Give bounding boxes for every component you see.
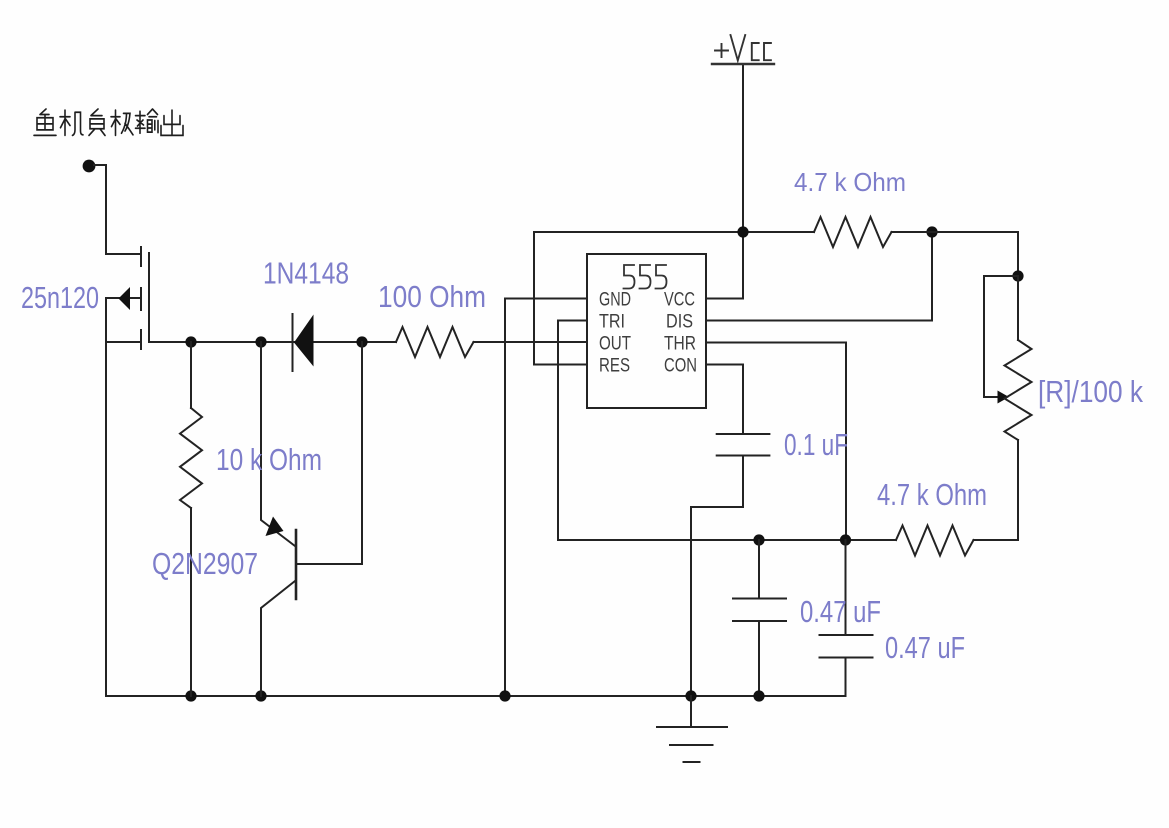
wire: rail to potentiometer top	[932, 232, 1018, 276]
node: C3/THR junction dot	[840, 534, 851, 545]
potentiometer RV1 wiper arrow	[998, 391, 1010, 404]
node: rail dot at ground symbol	[685, 690, 696, 701]
transistor Q1 emitter arrow	[266, 517, 284, 537]
wire: GND pin stub and riser down to ground rail	[505, 299, 587, 697]
char 极	[111, 110, 133, 135]
char 负	[89, 109, 105, 135]
svg-text:10 k Ohm: 10 k Ohm	[216, 442, 322, 477]
capacitor C1 0.1 uF plates	[717, 434, 770, 456]
node B junction dot	[255, 336, 266, 347]
wire: gate to main node A (y=342)	[149, 341, 396, 343]
svg-text:1N4148: 1N4148	[263, 256, 349, 291]
capacitor C3 0.47 uF plates	[820, 635, 873, 658]
node C junction dot	[356, 336, 367, 347]
node: 鱼机负极输出 input terminal	[83, 160, 96, 173]
char 输	[136, 109, 159, 133]
transistor M1 25n120 MOSFET channel bars	[140, 247, 142, 349]
potentiometer RV1 wiper loop	[984, 276, 1018, 397]
svg-text:GND: GND	[599, 290, 631, 311]
wire: R2 right lead	[892, 231, 933, 233]
wire: THR pin stub to right drop	[706, 343, 846, 541]
wire: terminal to MOSFET gate (top stub)	[94, 165, 140, 254]
wire: VCC pin stub	[706, 298, 743, 300]
svg-text:THR: THR	[664, 334, 696, 355]
wire: RES pin stub, riser and top Vcc rail	[534, 232, 814, 365]
node: rail dot at 10k	[185, 690, 196, 701]
wire: C1 bottom route to ground rail	[691, 456, 743, 697]
wire: DIS pin net	[706, 232, 932, 321]
svg-text:OUT: OUT	[599, 334, 631, 355]
potentiometer RV1 top lead	[1017, 276, 1019, 340]
char 出	[161, 110, 183, 135]
transistor Q1 Q2N2907 collector wire	[261, 342, 295, 546]
node: junction dot right of R2	[926, 226, 937, 237]
svg-text:DIS: DIS	[666, 312, 693, 333]
node A junction dot	[185, 336, 196, 347]
node: rail dot at GND riser	[499, 690, 510, 701]
label: 555 designator (plotter style digits)	[624, 265, 667, 289]
node: Vcc rail junction dot	[737, 226, 748, 237]
wire: +Vcc drop	[742, 65, 744, 299]
svg-text:4.7 k Ohm: 4.7 k Ohm	[794, 167, 906, 197]
op-amp U1 555 timer body	[587, 254, 706, 408]
svg-text:4.7 k Ohm: 4.7 k Ohm	[877, 477, 987, 512]
transistor M1 25n120 gate bar	[148, 253, 150, 342]
svg-text:VCC: VCC	[664, 290, 695, 311]
transistor Q1 emitter wire down	[261, 581, 295, 696]
resistor R4 10 k Ohm leads	[190, 342, 192, 696]
wire: ground rail	[106, 695, 846, 697]
capacitor C2 0.47 uF leads	[758, 540, 760, 696]
resistor R4 10 k Ohm zigzag	[180, 408, 202, 508]
transistor Q1 base bar	[295, 530, 298, 599]
svg-text:0.1 uF: 0.1 uF	[784, 427, 848, 462]
resistor R2 4.7 k Ohm zigzag (top)	[814, 217, 892, 247]
wire: THR/TRI net horizontal	[558, 539, 896, 541]
svg-text:CON: CON	[664, 356, 697, 377]
wire: R1 to 555 OUT pin	[474, 341, 588, 343]
svg-text:25n120: 25n120	[21, 280, 99, 315]
svg-text:0.47 uF: 0.47 uF	[800, 594, 881, 629]
node: rail dot at C2	[753, 690, 764, 701]
node: C2 top junction dot	[753, 534, 764, 545]
char 鱼	[34, 109, 56, 135]
svg-text:[R]/100 k: [R]/100 k	[1038, 374, 1143, 409]
capacitor C3 0.47 uF leads	[845, 540, 847, 696]
svg-text:TRI: TRI	[599, 312, 625, 333]
wire: TRI pin stub and riser down to THR net	[558, 321, 587, 541]
wire: R3 right lead to pot bottom	[974, 539, 1019, 541]
transistor M1 source stub	[106, 341, 140, 343]
capacitor C2 0.47 uF plates	[733, 599, 786, 622]
transistor M1 body stub with arrow	[106, 297, 140, 299]
resistor R1 100 Ohm zigzag	[396, 327, 474, 357]
svg-text:RES: RES	[599, 356, 630, 377]
svg-text:0.47 uF: 0.47 uF	[885, 630, 965, 665]
potentiometer RV1 [R]/100 k zigzag	[1005, 340, 1032, 440]
wire: CON pin stub down to C1	[706, 365, 743, 435]
power symbol +Vcc	[712, 35, 774, 64]
wire: MOSFET source down to ground rail	[105, 298, 107, 696]
diode D1 1N4148 cathode bar	[292, 314, 294, 371]
svg-text:Q2N2907: Q2N2907	[152, 546, 258, 581]
char 机	[60, 110, 83, 135]
ground symbol	[657, 696, 727, 762]
diode D1 1N4148 triangle	[294, 315, 314, 367]
label: 鱼机负极输出 (hand-drawn strokes)	[34, 109, 183, 135]
svg-text:100 Ohm: 100 Ohm	[378, 279, 486, 314]
transistor Q1 base lead to node C	[296, 342, 362, 564]
resistor R3 4.7 k Ohm zigzag (right)	[896, 526, 974, 556]
potentiometer RV1 bottom lead	[1017, 440, 1019, 540]
node: rail dot at Q1 emitter	[255, 690, 266, 701]
node: pot top junction dot	[1012, 270, 1023, 281]
